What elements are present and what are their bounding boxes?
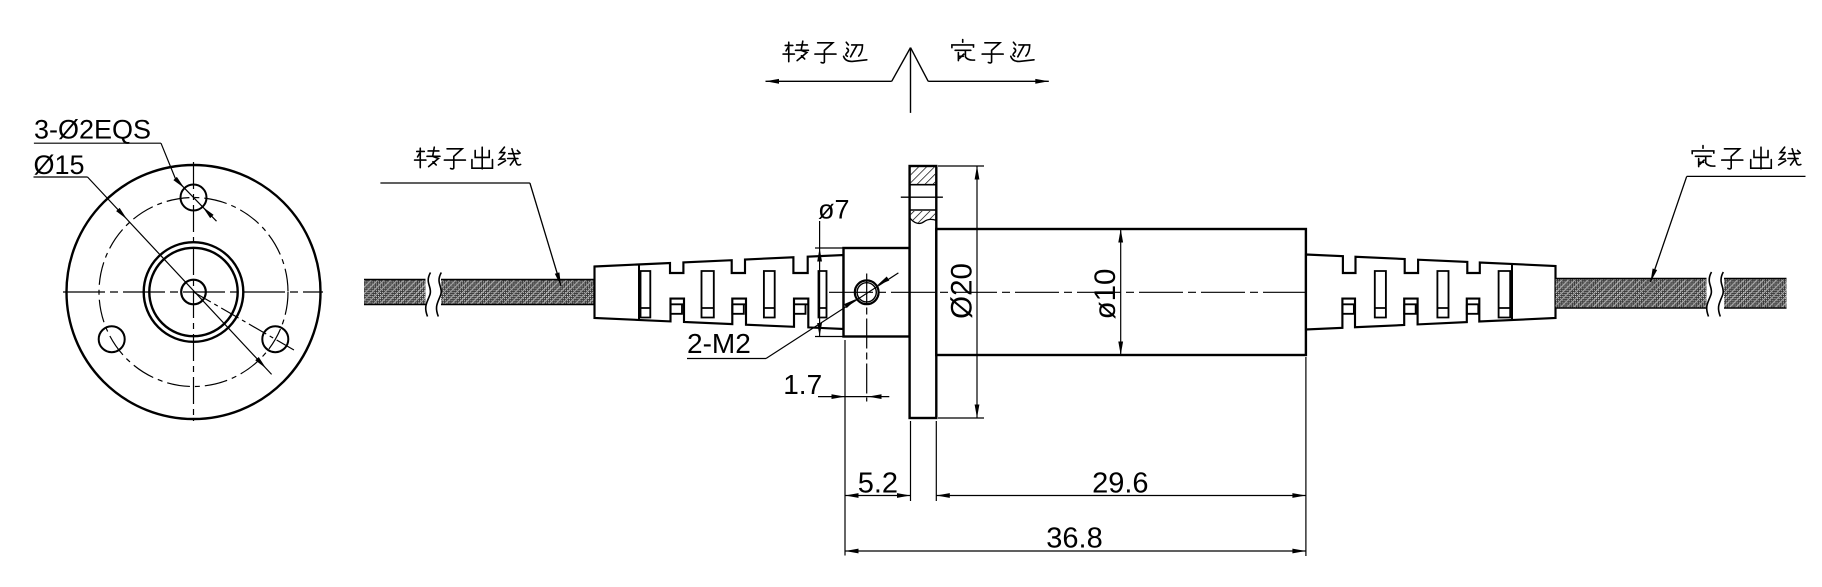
dimension 5.2: [845, 495, 911, 497]
leader 2-M2: [766, 273, 898, 359]
svg-text:Ø20: Ø20: [946, 263, 979, 319]
flange section hatch top: [911, 167, 936, 185]
svg-text:29.6: 29.6: [1092, 468, 1148, 500]
svg-text:ø7: ø7: [818, 195, 850, 225]
rotor boss ø7: [844, 248, 910, 337]
front view horizontal centerline: [63, 291, 323, 293]
front view flange outer circle: [67, 165, 321, 419]
label stator side (ding zi bian): [952, 40, 975, 61]
left strain relief windows: [641, 271, 827, 318]
radial centerline to lower-right hole: [194, 292, 297, 351]
right strain relief rib boundary: [1511, 264, 1513, 320]
svg-text:2-M2: 2-M2: [687, 328, 751, 359]
flange partial-section break line: [910, 218, 937, 224]
left strain relief outline: [595, 255, 844, 329]
extension lines bottom: [844, 340, 846, 556]
front view boss circle inner: [149, 248, 237, 336]
leader stator lead wires: [1651, 176, 1687, 282]
front view boss circle outer: [144, 242, 244, 342]
svg-text:ø10: ø10: [1089, 269, 1122, 320]
flange bolt hole centerline: [901, 196, 943, 198]
right strain relief joint tongues: [1342, 304, 1479, 314]
right cable break lines: [1707, 272, 1712, 317]
set screw 2-M2 circles: [855, 280, 879, 304]
left cable break lines: [426, 273, 431, 317]
label rotor side (zhuan zi bian): [783, 41, 808, 62]
dimension 29.6: [936, 495, 1306, 497]
svg-text:5.2: 5.2: [858, 468, 898, 500]
mounting hole 3: [262, 326, 288, 352]
right strain relief windows: [1375, 271, 1510, 318]
flange section hatch lower block: [911, 211, 936, 223]
front view vertical centerline: [193, 162, 195, 421]
bolt circle centerline: [99, 198, 288, 387]
svg-text:3-Ø2EQS: 3-Ø2EQS: [34, 115, 151, 145]
right strain relief outline: [1306, 255, 1556, 330]
svg-text:Ø15: Ø15: [34, 150, 85, 180]
mounting hole 2: [99, 326, 125, 352]
flange bolt hole bottom edge: [910, 209, 937, 211]
front view center bore: [181, 280, 206, 305]
main horizontal centerline: [829, 291, 1331, 293]
dimension 1.7: [818, 396, 889, 398]
svg-text:1.7: 1.7: [783, 369, 822, 400]
dimension Ø15 leader and diameter line: [88, 177, 272, 374]
leader rotor lead wires: [530, 183, 561, 286]
dimension ø10: [1120, 229, 1122, 355]
set screw vertical centerline / extension: [866, 274, 868, 402]
left strain relief joint tongues: [671, 304, 809, 314]
svg-text:36.8: 36.8: [1046, 523, 1102, 555]
label stator lead wires (ding zi chu xian): [1692, 146, 1715, 167]
rotor/stator divider symbol: [910, 48, 912, 113]
flange plate: [910, 166, 937, 418]
mounting hole 1: [181, 185, 207, 211]
flange bolt hole top edge: [910, 184, 937, 186]
dimension 36.8: [845, 550, 1306, 552]
dimension ø7: [815, 247, 844, 249]
stator cable (right, hatched): [1556, 279, 1707, 308]
dimension Ø20: [938, 165, 984, 167]
rotor cable (left, hatched): [364, 280, 426, 305]
label rotor lead wires (zhuan zi chu xian): [415, 147, 440, 168]
left strain relief rib boundary: [638, 264, 640, 320]
dimension 3-Ø2EQS leader through top hole: [161, 143, 176, 179]
stator body ø10: [936, 229, 1306, 355]
